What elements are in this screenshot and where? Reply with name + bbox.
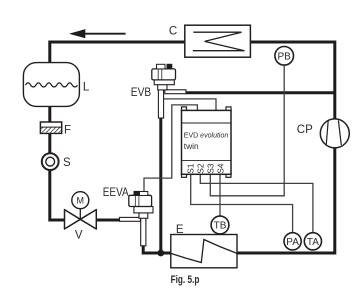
svg-text:Fig. 5.p: Fig. 5.p — [171, 274, 200, 286]
svg-text:F: F — [64, 124, 71, 136]
svg-text:twin: twin — [184, 141, 199, 151]
svg-text:TB: TB — [214, 221, 227, 232]
svg-text:E: E — [176, 224, 184, 236]
svg-text:L: L — [83, 81, 90, 93]
svg-text:S1: S1 — [187, 163, 196, 173]
svg-text:V: V — [75, 230, 83, 242]
svg-text:M: M — [77, 196, 85, 206]
svg-text:C: C — [169, 26, 177, 38]
svg-text:S4: S4 — [217, 163, 226, 173]
svg-text:S2: S2 — [197, 163, 206, 173]
svg-text:S: S — [63, 157, 71, 169]
svg-text:S3: S3 — [207, 163, 216, 173]
svg-text:EVB: EVB — [131, 87, 152, 99]
svg-text:PA: PA — [286, 237, 299, 248]
svg-text:CP: CP — [297, 124, 313, 136]
svg-text:EVD evolution: EVD evolution — [184, 133, 229, 140]
svg-text:EEVA: EEVA — [103, 187, 129, 199]
svg-text:PB: PB — [278, 51, 292, 62]
svg-text:TA: TA — [307, 237, 319, 248]
